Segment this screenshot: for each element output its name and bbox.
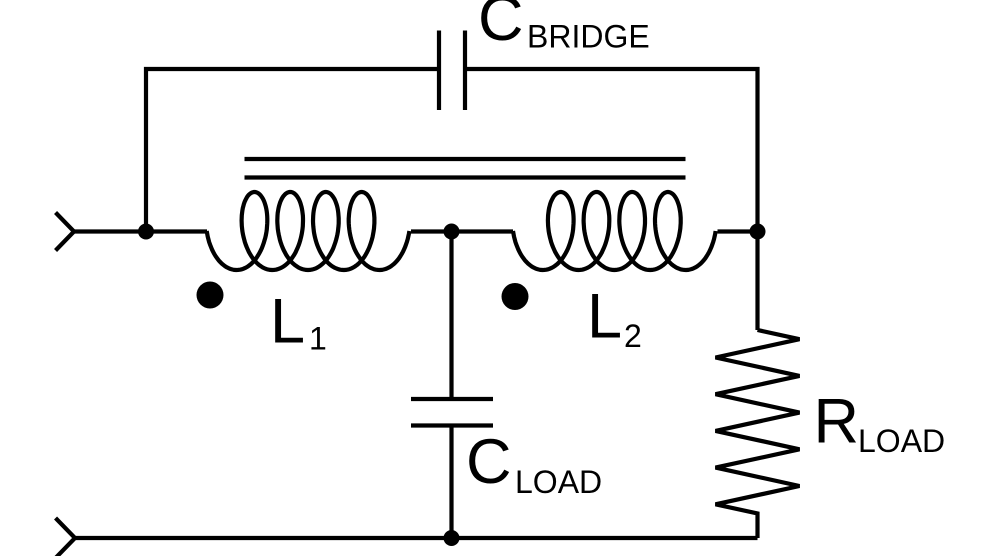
svg-text:LOAD: LOAD	[858, 423, 945, 459]
svg-text:L: L	[587, 282, 622, 352]
svg-text:BRIDGE: BRIDGE	[527, 19, 650, 55]
svg-text:2: 2	[624, 318, 642, 354]
svg-text:C: C	[466, 427, 512, 497]
svg-text:L: L	[270, 287, 305, 357]
svg-text:C: C	[478, 0, 524, 54]
svg-text:LOAD: LOAD	[515, 464, 602, 500]
svg-text:1: 1	[309, 321, 327, 357]
svg-text:R: R	[814, 387, 860, 457]
